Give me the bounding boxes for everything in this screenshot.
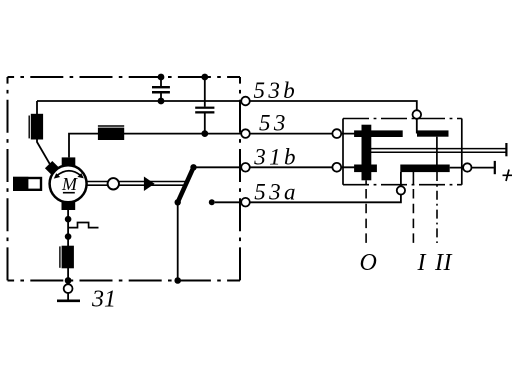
- svg-text:31b: 31b: [253, 144, 299, 169]
- svg-text:I: I: [417, 250, 427, 276]
- svg-text:53a: 53a: [254, 180, 299, 205]
- svg-text:31: 31: [91, 286, 116, 312]
- svg-text:II: II: [434, 250, 452, 276]
- svg-text:O: O: [360, 250, 377, 276]
- svg-text:53: 53: [259, 111, 289, 136]
- svg-text:M: M: [61, 174, 78, 194]
- svg-text:53b: 53b: [254, 78, 299, 103]
